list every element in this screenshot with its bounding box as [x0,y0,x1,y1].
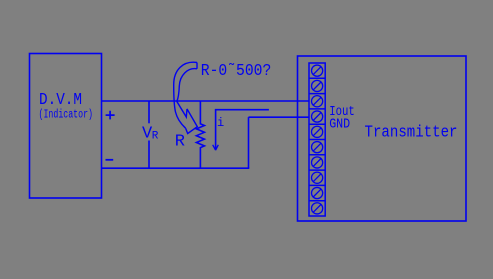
svg-text:i: i [217,116,224,130]
svg-text:Transmitter: Transmitter [365,124,458,143]
svg-text:R-0˜500?: R-0˜500? [201,62,271,81]
svg-text:D.V.M: D.V.M [39,91,82,110]
svg-text:GND: GND [329,118,350,133]
svg-text:(Indicator): (Indicator) [39,109,94,122]
svg-text:R: R [152,131,159,143]
svg-text:R: R [175,133,185,152]
